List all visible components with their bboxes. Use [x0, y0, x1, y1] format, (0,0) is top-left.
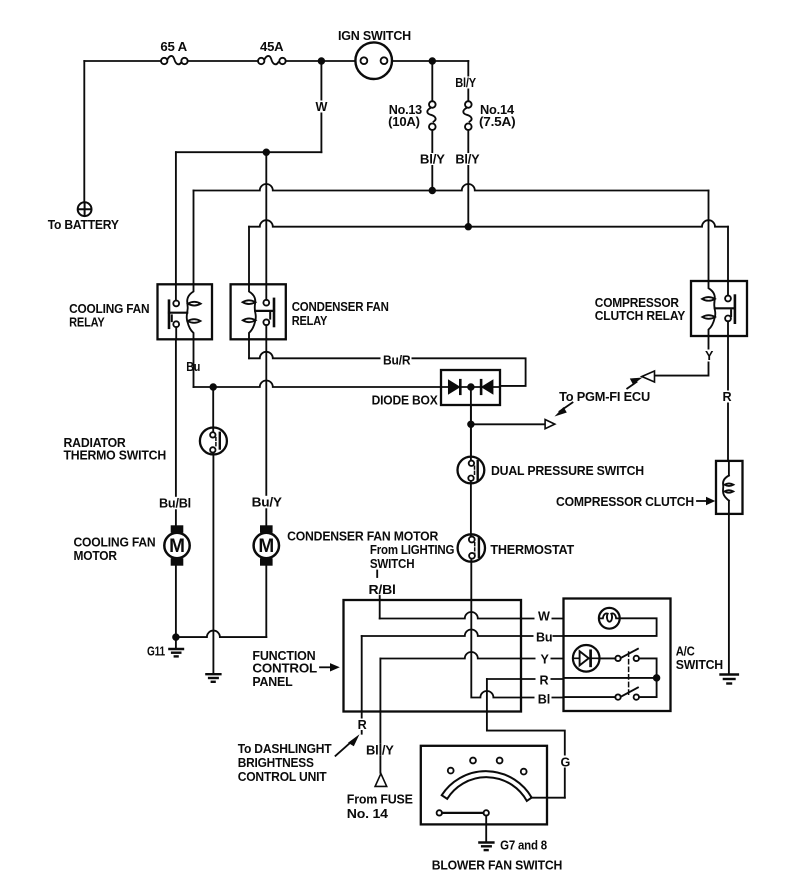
wire: top bus battery to fuse 65A: [84, 60, 161, 62]
svg-text:W: W: [538, 610, 550, 624]
relay U3 COMPRESSOR CLUTCH RELAY box: [691, 281, 747, 336]
wire: fuse No.14 down through hop to bus B: [467, 130, 469, 227]
node: junction R line / switch returns: [654, 675, 660, 681]
svg-text:COMPRESSOR CLUTCH: COMPRESSOR CLUTCH: [556, 495, 694, 509]
node: junction W feed / condenser contact drop: [264, 149, 270, 155]
fuse No.13 (10A) vertical: [427, 101, 435, 130]
wire: PGM branch to connector: [471, 423, 545, 425]
svg-text:Bu: Bu: [536, 631, 552, 645]
svg-text:No. 14: No. 14: [347, 807, 388, 821]
label No.14 (7.5A): [479, 103, 515, 129]
label Bl/Y (fuse 14 output): [453, 152, 480, 166]
label COOLING FAN RELAY: [69, 302, 149, 330]
label From LIGHTING SWITCH: [370, 543, 455, 571]
svg-text:Bl/Y: Bl/Y: [455, 152, 480, 166]
svg-text:45A: 45A: [260, 40, 283, 54]
svg-text:W: W: [316, 100, 328, 114]
wire: cooling fan motor to G11 ground: [175, 566, 177, 648]
node: junction Bu line / radiator thermo drop: [210, 384, 216, 390]
diode (A/C indicator) in A/C switch: [573, 645, 600, 672]
blower fan switch BLOWER FAN SWITCH box: [421, 746, 547, 825]
wire: IGN switch output to No.14 drop: [392, 60, 468, 62]
wire: R line from blower branch to A/C switch: [487, 678, 564, 680]
label No.13 (10A): [388, 103, 422, 129]
svg-text:CONTROL: CONTROL: [252, 662, 317, 676]
ground (A/C compressor circuit): [721, 675, 738, 684]
label CONDENSER FAN RELAY: [292, 300, 389, 328]
label Bu (panel to A/C switch): [534, 631, 553, 645]
svg-text:Bu/Bl: Bu/Bl: [159, 497, 191, 511]
label To DASHLINGHT BRIGHTNESS CONTROL UNIT: [238, 742, 332, 784]
svg-text:R/Bl: R/Bl: [369, 583, 396, 597]
thermostat THERMOSTAT: [458, 534, 485, 600]
blower switch common contact bar: [437, 810, 489, 815]
ground G7 and 8: [479, 843, 493, 851]
node: junction G11: [173, 634, 179, 640]
svg-text:Y: Y: [705, 349, 714, 363]
wire: Y corner down, exits FCP as Bl/Y lead to fuse 14: [379, 659, 381, 773]
arrow: from To PGM-FI ECU text up-right to connector: [627, 378, 642, 389]
svg-text:DUAL PRESSURE SWITCH: DUAL PRESSURE SWITCH: [491, 464, 644, 478]
connector: open triangle from PGM-FI ECU (left-pointing): [642, 371, 655, 382]
wire: condenser relay coil drop from bus B: [248, 227, 250, 285]
blower switch contact 1: [448, 768, 454, 774]
fuse 65 A (circle-wave-circle): [161, 56, 188, 64]
ground (radiator thermo switch): [206, 674, 220, 682]
label Bl/Y (top near No.14 drop): [453, 76, 479, 90]
svg-text:G11: G11: [147, 645, 165, 659]
svg-text:R: R: [540, 674, 549, 688]
node: diode box center junction: [468, 384, 474, 390]
label Bl /Y (fuse 14 lead): [364, 744, 395, 758]
svg-text:CLUTCH RELAY: CLUTCH RELAY: [595, 309, 686, 323]
label Bl (panel to A/C switch): [535, 693, 552, 707]
node: junction bus A / fuse No.13: [430, 188, 436, 194]
svg-text:CONDENSER FAN MOTOR: CONDENSER FAN MOTOR: [287, 530, 438, 544]
function control panel FUNCTION CONTROL PANEL box: [344, 600, 522, 712]
wire: thermostat line down inside FCP, corner to Bl line, hop at 486.9: [471, 600, 563, 698]
svg-text:THERMO SWITCH: THERMO SWITCH: [64, 449, 167, 463]
arrow: FUNCTION CONTROL PANEL label arrow (pointing right): [320, 663, 340, 671]
wire: bus fuse 45A to IGN switch: [286, 60, 356, 62]
wire: dashed mechanical link between switches: [628, 652, 630, 697]
dual pressure switch DUAL PRESSURE SWITCH: [458, 405, 485, 534]
label A/C SWITCH: [676, 645, 723, 672]
wire: No.14 drop to fuse: [467, 61, 469, 101]
lamp (illumination bulb) in A/C switch: [599, 608, 620, 629]
wire: Bu line corner to A/C switch, hop at 471.3: [362, 630, 564, 636]
svg-text:M: M: [169, 536, 185, 557]
wire: Bu/R line y=358.3 with hop at 266.3, right end drops to diode box: [249, 352, 526, 386]
node: junction bus B / fuse No.14: [466, 224, 472, 230]
wire: diode junction down to PGM branch: [470, 387, 472, 457]
svg-text:COOLING FAN: COOLING FAN: [69, 302, 149, 316]
svg-text:COOLING FAN: COOLING FAN: [74, 536, 156, 550]
label Bu/R: [381, 353, 412, 367]
svg-text:THERMOSTAT: THERMOSTAT: [490, 543, 574, 557]
diode D1 (left, cathode bar right): [449, 380, 460, 394]
svg-text:A/C: A/C: [676, 645, 695, 659]
svg-text:G7 and 8: G7 and 8: [500, 839, 547, 853]
wire: condenser fan motor down to ground link: [265, 566, 267, 637]
wire: Y line corner to A/C switch, hop at 471.3: [380, 652, 563, 659]
svg-text:MOTOR: MOTOR: [74, 549, 117, 563]
label Bl/Y (fuse 13 output): [418, 152, 446, 166]
wire: Bu line y=387 to diode box, hop at 266.3: [194, 381, 442, 388]
connector: open triangle to PGM-FI ECU (right-pointing): [545, 420, 555, 429]
wire: compressor relay switch drop from bus B: [727, 227, 729, 281]
wire: lighting switch stub above R/Bl: [376, 571, 378, 578]
svg-text:BLOWER FAN SWITCH: BLOWER FAN SWITCH: [432, 859, 563, 873]
relay U2 internals: coil left, switch right: [243, 284, 274, 339]
wire: lamp right to Bu return inside A/C switch: [564, 618, 657, 636]
connector: triangle From FUSE No.14 (up-pointing): [375, 774, 387, 787]
wire: cooling relay coil drop from bus A: [193, 191, 195, 285]
svg-text:SWITCH: SWITCH: [676, 658, 723, 672]
wire: W line from R/Bl corner to A/C switch, hop at 471.3: [380, 612, 564, 619]
svg-text:(7.5A): (7.5A): [479, 115, 515, 129]
svg-text:To DASHLINGHT: To DASHLINGHT: [238, 742, 332, 756]
wire: cooling relay contact to cooling fan motor (Bu/Bl): [175, 339, 177, 525]
wire: cooling relay contact drop: [175, 152, 177, 284]
svg-text:M: M: [258, 536, 274, 557]
diode box DIODE BOX: [441, 370, 500, 405]
svg-text:Bu/Y: Bu/Y: [252, 496, 283, 510]
svg-text:Bl/Y: Bl/Y: [455, 76, 476, 90]
wire: diode box center line: [441, 386, 500, 388]
wire: cooling relay coil down to Bu line corner: [193, 339, 195, 387]
switch S2 (lower) in A/C switch: [564, 678, 657, 700]
switch S1 (upper) in A/C switch: [599, 649, 657, 678]
svg-text:From LIGHTING: From LIGHTING: [370, 543, 455, 557]
svg-text:Y: Y: [541, 653, 550, 667]
label FUNCTION CONTROL PANEL: [252, 649, 317, 689]
wire: BI/Y bus A y=190.5 with hops at 266.3 and 468.3: [194, 184, 709, 191]
svg-text:G: G: [561, 756, 571, 770]
svg-text:(10A): (10A): [388, 115, 420, 129]
svg-text:Bl/Y: Bl/Y: [420, 152, 446, 166]
label W (ignition feed): [313, 100, 329, 114]
wire: No.13 drop to fuse: [431, 61, 433, 101]
label Y (compressor coil wire): [703, 349, 716, 363]
wire: relay feed line y=152 (W): [176, 151, 322, 153]
motor M2 CONDENSER FAN MOTOR: [254, 525, 279, 565]
wire: blower switch common to ground G7 and 8: [485, 816, 487, 842]
wire: condenser relay contact to condenser fan motor (Bu/Y): [265, 339, 267, 525]
wire: battery riser from top bus down to battery terminal: [83, 61, 85, 202]
svg-text:To PGM-FI ECU: To PGM-FI ECU: [559, 390, 650, 404]
svg-text:From FUSE: From FUSE: [347, 793, 413, 807]
wire: compressor relay switch (R) down to compressor clutch: [727, 336, 729, 461]
svg-text:Bl: Bl: [538, 693, 550, 707]
label From FUSE No. 14: [347, 793, 413, 822]
svg-text:To BATTERY: To BATTERY: [48, 218, 120, 232]
wire: G wire into blower switch arc: [531, 797, 565, 799]
wire: compressor clutch down to ground: [728, 514, 730, 674]
wire: R line inside A/C switch: [564, 677, 657, 679]
node: junction top bus / W drop: [319, 58, 325, 64]
fuse No.14 (7.5A) vertical: [463, 101, 471, 130]
wire: W drop from bus to relay feed line: [320, 61, 322, 152]
diode D2 (right, cathode bar left): [481, 380, 492, 394]
svg-text:R: R: [358, 718, 367, 732]
svg-text:CONTROL UNIT: CONTROL UNIT: [238, 770, 327, 784]
blower switch contact 4: [521, 769, 527, 775]
label RADIATOR THERMO SWITCH: [64, 436, 167, 463]
svg-text:CONDENSER FAN: CONDENSER FAN: [292, 300, 389, 314]
svg-text:65 A: 65 A: [160, 40, 187, 54]
wire: compressor relay coil (Y) down and left to ECU connector: [655, 336, 709, 376]
blower switch wiper arc: [442, 771, 532, 801]
node: junction IGN output / No.13 drop: [430, 58, 436, 64]
svg-text:Bu/R: Bu/R: [383, 353, 410, 367]
ign switch IGN SWITCH (circle with two terminals): [355, 42, 392, 79]
svg-text:RELAY: RELAY: [292, 314, 328, 328]
blower switch contact 2: [470, 758, 476, 764]
fuse 45A (circle-wave-circle): [258, 56, 286, 64]
wire: ground link motors y=637.1 with hop at 213.4: [176, 631, 266, 638]
label Bu/Y: [249, 496, 283, 510]
label G (blower lead): [558, 756, 571, 770]
A/C switch box A/C SWITCH: [564, 599, 671, 712]
svg-text:Bu: Bu: [186, 360, 200, 374]
label COOLING FAN MOTOR: [74, 536, 156, 563]
svg-text:RELAY: RELAY: [69, 316, 105, 330]
battery terminal To BATTERY (circle with plus): [78, 202, 92, 216]
wire: blower branch down out of FCP, to G wire: [487, 679, 565, 798]
label Y (panel to A/C switch): [536, 653, 551, 667]
relay U1 COOLING FAN RELAY box: [158, 284, 213, 339]
arrow: To DASHLINGHT label arrow (pointing up-right at R lead): [336, 734, 360, 756]
relay U2 CONDENSER FAN RELAY box: [231, 284, 286, 339]
svg-text:R: R: [723, 390, 732, 404]
motor M1 COOLING FAN MOTOR: [164, 525, 189, 565]
svg-text:BRIGHTNESS: BRIGHTNESS: [238, 756, 314, 770]
wire: BI/Y bus B y=226.7 with hops at 266.3 and 708.5: [249, 220, 728, 227]
wire: condenser relay contact drop: [265, 152, 267, 284]
relay U3 internals: coil left, switch right: [702, 281, 735, 336]
wire: R/Bl drop into function control panel: [379, 596, 381, 619]
label R (panel to A/C switch): [536, 674, 551, 688]
compressor clutch COMPRESSOR CLUTCH (box with coil): [716, 461, 743, 514]
label W (panel to A/C switch): [535, 610, 552, 624]
wire: Bu corner down, exits FCP as R lead to dashlight unit: [361, 636, 363, 734]
label R (dashlight lead): [355, 718, 368, 732]
label Bu/Bl: [157, 497, 193, 511]
svg-text:PANEL: PANEL: [252, 675, 293, 689]
node: junction PGM branch: [468, 422, 474, 428]
svg-text:IGN SWITCH: IGN SWITCH: [338, 29, 411, 43]
arrow: COMPRESSOR CLUTCH label arrow (filled, pointing right): [697, 497, 715, 505]
label R (compressor switch wire): [720, 390, 733, 404]
svg-text:DIODE BOX: DIODE BOX: [372, 394, 439, 408]
relay U1 internals: switch bar, contacts, link, coil: [169, 284, 201, 339]
wire: compressor relay coil drop from bus A: [708, 191, 710, 282]
wire: fuse No.13 down to BI/Y bus A: [431, 130, 433, 191]
radiator thermo switch RADIATOR THERMO SWITCH: [200, 387, 227, 673]
wire: bus between fuses: [188, 60, 258, 62]
arrow: from To PGM-FI ECU text down-left to connector: [555, 403, 573, 417]
blower switch contact 3: [497, 758, 503, 764]
wire: condenser relay coil down to Bu/R corner: [248, 339, 250, 358]
label COMPRESSOR CLUTCH RELAY: [595, 296, 686, 323]
svg-text:SWITCH: SWITCH: [370, 557, 415, 571]
ground G11: [169, 649, 183, 656]
